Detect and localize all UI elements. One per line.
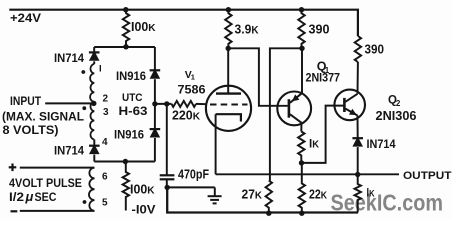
resistor 27K (266, 181, 272, 214)
wire pulse bottom (20, 210, 95, 212)
wire bottom rail (167, 187, 358, 212)
svg-text:8 VOLTS): 8 VOLTS) (3, 125, 59, 137)
svg-text:IN714: IN714 (54, 51, 84, 65)
svg-text:I: I (99, 64, 102, 75)
wire cathode to output (215, 114, 217, 174)
resistor 220K (172, 101, 197, 107)
resistor 100K lower (123, 162, 129, 211)
phasing dot top (81, 70, 85, 74)
node Q1 emitter junction (299, 46, 304, 51)
svg-text:220K: 220K (172, 109, 201, 123)
svg-text:IK: IK (309, 137, 319, 151)
svg-text:I00K: I00K (131, 20, 156, 34)
node cap tap (164, 101, 169, 106)
svg-text:4: 4 (102, 137, 108, 148)
transformer T1 winding 1-4 (90, 64, 94, 140)
+24V rail (9, 10, 358, 36)
svg-text:-I0V: -I0V (132, 203, 156, 217)
svg-text:3.9K: 3.9K (235, 22, 259, 37)
minus sign (11, 210, 18, 212)
svg-text:OUTPUT: OUTPUT (403, 170, 452, 182)
ground (214, 187, 216, 196)
tube V1 envelope (206, 86, 251, 131)
svg-text:7586: 7586 (178, 84, 206, 96)
wire Q2 collector (357, 62, 359, 94)
node 1K bottom (299, 160, 304, 165)
wire to Q2 base (302, 106, 344, 163)
svg-text:3: 3 (103, 107, 109, 118)
diode 1N916 top (154, 47, 156, 70)
svg-text:390: 390 (365, 42, 385, 57)
resistor 3.9K (225, 10, 231, 49)
svg-text:IK: IK (367, 188, 375, 200)
resistor 1K Q1 (300, 123, 302, 132)
node input tap (91, 101, 96, 106)
svg-text:2NI377: 2NI377 (306, 71, 341, 85)
node rail-100K (123, 7, 128, 12)
plus sign (9, 166, 17, 168)
resistor 1K output (355, 175, 361, 213)
INPUT wire (45, 102, 94, 104)
svg-text:5: 5 (102, 197, 108, 208)
svg-text:470pF: 470pF (178, 167, 209, 181)
wire top diode row (94, 46, 155, 48)
node 100K bottom (123, 44, 128, 49)
svg-text:390: 390 (309, 22, 330, 37)
node -10V tap (123, 159, 128, 164)
transformer winding 6-5 (89, 168, 95, 211)
svg-text:I/2: I/2 (9, 192, 24, 204)
svg-text:4VOLT PULSE: 4VOLT PULSE (9, 178, 82, 190)
transistor Q1 (277, 92, 311, 126)
svg-text:22K: 22K (309, 187, 328, 201)
wire Q2 emitter down (357, 116, 359, 139)
transistor Q2 (334, 90, 365, 121)
wire output (216, 173, 399, 175)
svg-text:+24V: +24V (10, 13, 41, 25)
svg-text:2: 2 (103, 94, 109, 105)
svg-text:27K: 27K (242, 187, 263, 201)
svg-text:H-63: H-63 (119, 104, 148, 118)
resistor 390 right (355, 36, 361, 62)
svg-text:IN916: IN916 (114, 128, 144, 142)
diode 1N714 Q2 (352, 137, 363, 139)
tube grid (210, 104, 248, 106)
resistor 22K (299, 163, 305, 213)
svg-text:1: 1 (191, 73, 195, 82)
capacitor 470pF (166, 104, 168, 175)
phasing dot bottom (83, 200, 87, 204)
svg-text:IN916: IN916 (116, 69, 146, 83)
tube plate (216, 92, 241, 94)
diode 1N714 lower (93, 140, 95, 146)
wire bottom diode row (94, 161, 155, 163)
svg-text:INPUT: INPUT (10, 96, 41, 108)
svg-text:2NI306: 2NI306 (376, 109, 417, 123)
resistor 390 left (298, 10, 304, 49)
wire to ground (167, 186, 215, 188)
node plate junction (226, 46, 231, 51)
wire pulse top (20, 167, 95, 169)
tube cathode (216, 114, 241, 121)
wire 390 to 27K column (270, 48, 302, 180)
node output/emitter (355, 172, 360, 177)
node cap bottom (165, 185, 170, 190)
svg-text:I00K: I00K (130, 183, 155, 197)
wire grid (155, 103, 172, 105)
diode 1N714 top (93, 47, 95, 52)
svg-text:6: 6 (102, 171, 108, 182)
node grid wire left (152, 101, 157, 106)
wire plate lead (227, 48, 229, 92)
phasing dot mid (82, 106, 86, 110)
diode 1N916 lower (154, 104, 156, 129)
wire Q1 emitter up (301, 48, 303, 93)
resistor 100K top (123, 10, 129, 47)
svg-text:SEC: SEC (35, 192, 57, 204)
svg-text:UTC: UTC (122, 92, 143, 104)
svg-text:μ: μ (25, 189, 34, 204)
svg-text:IN714: IN714 (367, 137, 396, 151)
svg-text:(MAX. SIGNAL: (MAX. SIGNAL (2, 112, 84, 124)
svg-text:IN714: IN714 (54, 144, 84, 158)
wire plate to Q1 base (228, 48, 288, 106)
svg-text:2: 2 (396, 99, 401, 108)
